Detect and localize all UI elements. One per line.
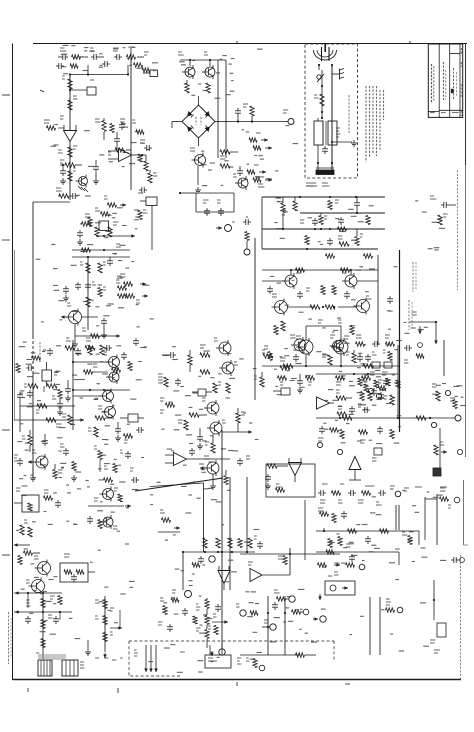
amp left vertical xyxy=(261,197,263,249)
connector J8 xyxy=(185,591,192,598)
rotated label left xyxy=(39,342,41,362)
box circuit bottom-left xyxy=(14,488,39,512)
long mid rail y418 xyxy=(316,417,452,419)
small box FB1 xyxy=(140,197,157,250)
resistor R7 xyxy=(115,148,131,152)
resistor R56 xyxy=(254,372,264,387)
transistor Q17 xyxy=(73,389,114,404)
resistor string col (207,600-640) xyxy=(196,598,228,656)
wire top mid rails xyxy=(180,59,226,158)
cluster under amp xyxy=(262,350,392,362)
vertical wire x255 lower xyxy=(254,345,256,400)
capacitor C3 xyxy=(114,132,120,150)
below rail cluster 2 xyxy=(359,426,395,443)
right margin note text lower xyxy=(460,555,462,680)
transistor Q25 xyxy=(330,335,344,354)
cluster bottom-left of center xyxy=(158,598,173,632)
labels topmid transistors xyxy=(179,59,235,99)
resistor R69 col xyxy=(20,520,32,537)
transistor Q11 output xyxy=(296,336,313,356)
resistor R20 xyxy=(95,227,112,237)
resistor R8 xyxy=(44,120,56,130)
border frame right rule xyxy=(464,44,469,546)
capacitor C20 xyxy=(115,422,121,441)
resistor R72 xyxy=(50,596,62,605)
long wire (sloped) xyxy=(135,477,247,552)
wire right rails xyxy=(316,373,398,375)
connector J7 xyxy=(431,422,436,427)
resistor R64 col xyxy=(358,392,384,408)
long vertical x232 xyxy=(229,497,231,590)
labels bottom center xyxy=(165,513,305,632)
resistor R80 xyxy=(296,653,317,657)
resistor R22 xyxy=(72,248,130,258)
wire x183 down xyxy=(182,552,184,590)
extra right grid parts xyxy=(349,378,400,414)
labels speaker area xyxy=(148,645,219,673)
connector J6 xyxy=(317,442,342,454)
extra labels amp right xyxy=(404,322,428,333)
labels center chain xyxy=(157,351,253,482)
output enclosure (dashed) xyxy=(129,641,334,676)
cluster center misc xyxy=(160,398,175,413)
long vertical x222 upper xyxy=(221,430,223,492)
capacitor C27 xyxy=(87,516,108,529)
resistor R26 xyxy=(116,280,127,298)
labels right block xyxy=(322,341,401,416)
resistor R28 xyxy=(138,210,148,220)
label amp rotated 2 xyxy=(409,300,412,330)
amp rail mid2 xyxy=(262,228,385,230)
amp misc parts xyxy=(297,288,350,323)
transistor Q4 xyxy=(233,174,248,190)
connector J9 xyxy=(209,556,215,562)
fuse F1 xyxy=(314,94,324,106)
capacitor C13 xyxy=(82,317,108,332)
resistor R9 xyxy=(141,154,148,171)
small boxes right xyxy=(370,362,392,375)
resistor R17 xyxy=(249,138,261,150)
resistor R40 xyxy=(53,464,63,479)
wire top right hook xyxy=(323,528,325,532)
cluster 100-140 425-445 xyxy=(124,427,145,443)
more topmid marks xyxy=(192,49,262,90)
resistor R51 xyxy=(178,420,188,430)
connector J4 xyxy=(368,388,381,398)
cluster near U3 xyxy=(276,484,306,560)
resistor R74 row (4x vertical) xyxy=(203,538,252,548)
vertical pair x396-399 xyxy=(396,505,399,530)
resistor R70 xyxy=(18,551,40,565)
extra amp stage parts xyxy=(267,268,393,335)
chain y565 xyxy=(318,563,365,575)
capacitor C2 / resistor R3 xyxy=(113,48,144,60)
transistor Q12 output xyxy=(331,336,349,356)
ground G5 xyxy=(210,474,216,489)
labels below rail xyxy=(323,420,401,443)
amp out emitter wires xyxy=(306,326,341,366)
labels midleft chain xyxy=(70,346,146,445)
resistor R2 group xyxy=(90,48,104,60)
transistor Q27 xyxy=(100,515,117,529)
resistor R18 xyxy=(247,170,261,182)
labels top-left rows xyxy=(61,47,141,68)
capacitor C26 xyxy=(365,352,377,362)
more preamp col marks xyxy=(71,195,154,319)
power switch S1 xyxy=(317,74,324,87)
cluster (60-90,445-490) xyxy=(60,444,90,489)
right lower cluster xyxy=(425,488,464,563)
capacitor C25 xyxy=(265,474,271,489)
right cluster x430-460 xyxy=(432,384,457,409)
wire bridge connections xyxy=(172,96,230,146)
capacitor C17 xyxy=(57,398,63,415)
transistor Q2 xyxy=(202,52,215,79)
wire w/ arrow xyxy=(88,498,131,508)
resistor R11 xyxy=(148,170,158,183)
small box FB0 xyxy=(69,80,96,95)
small box FB3 xyxy=(192,389,212,396)
labels bottom-left box xyxy=(16,493,129,531)
box near U5 xyxy=(372,448,382,461)
vertical x434 lower xyxy=(433,580,435,620)
extra tiny marks top xyxy=(242,126,299,180)
cluster (90-150,440-490) xyxy=(94,446,144,490)
wire transformer secondary xyxy=(317,152,333,164)
wire to winding xyxy=(318,163,332,170)
border frame top rule xyxy=(33,41,467,44)
op-amp U3 xyxy=(266,458,315,497)
labels lowleft strings xyxy=(21,544,135,639)
box FB2 xyxy=(120,414,144,422)
amp emitter resistors xyxy=(281,286,336,332)
caption under supply xyxy=(306,185,317,187)
capacitor C8 xyxy=(237,166,243,176)
amp rail mid1 xyxy=(300,212,385,214)
small box xyxy=(273,388,290,395)
amp rail +V xyxy=(262,196,385,198)
resistor R33 xyxy=(355,229,363,246)
wire y252 xyxy=(75,282,96,290)
capacitor C6 xyxy=(138,187,147,193)
box with arrow circuit xyxy=(325,576,355,595)
ground G6 xyxy=(85,640,91,655)
transistor Q21 xyxy=(202,398,219,416)
transistor Q3 xyxy=(190,148,206,168)
extra bottom right verticals xyxy=(399,531,419,565)
resistor R46 xyxy=(200,345,210,374)
transistor Q1 xyxy=(178,52,195,79)
labels center-right xyxy=(253,349,311,395)
resistor R76 xyxy=(208,626,218,635)
resistor R15 xyxy=(220,150,238,154)
capacitor C4 xyxy=(93,160,99,178)
border tick marks xyxy=(2,95,350,693)
op-amp U2 xyxy=(108,149,142,162)
resistor R42 xyxy=(84,345,109,374)
label near speaker xyxy=(180,651,185,653)
op-amp U4 xyxy=(316,397,334,409)
resistor R30 xyxy=(281,197,285,229)
below rail cluster 1 xyxy=(318,426,344,441)
transistor Q9 xyxy=(272,294,288,316)
op-amp U5 xyxy=(349,457,361,481)
wire mid rail xyxy=(72,389,130,391)
extra tiny marks trc xyxy=(415,201,445,250)
winding box L1 xyxy=(36,653,52,676)
border tick left2 xyxy=(40,90,44,92)
resistor R24 xyxy=(98,262,106,273)
labels under bridge xyxy=(201,151,265,185)
more bottom center parts xyxy=(162,565,212,633)
left border doubling xyxy=(14,250,16,420)
gray halftone bar xyxy=(38,654,66,660)
resistor R68 xyxy=(118,494,122,502)
amp box left xyxy=(254,238,256,345)
labels preamp col xyxy=(83,196,140,327)
power supply enclosure (dashed) xyxy=(305,44,358,178)
resistor R41 row xyxy=(65,338,112,351)
transistor Q28 xyxy=(34,556,51,577)
transistor Q26 xyxy=(100,487,119,502)
connector J5 xyxy=(452,415,463,455)
transistor Q23 xyxy=(200,456,219,476)
cluster top-left small parts xyxy=(58,119,145,153)
winding bar xyxy=(316,168,334,175)
rail to connector J1 xyxy=(230,120,287,122)
ground G3 xyxy=(72,332,107,347)
transistor Q20 xyxy=(219,360,238,376)
resistor R31 xyxy=(293,197,297,211)
right side down-arrow group xyxy=(409,312,438,344)
capacitor C7 xyxy=(235,108,241,122)
resistor R35 xyxy=(283,364,373,368)
labels row bottom xyxy=(95,658,123,660)
vertical x398 xyxy=(397,345,399,418)
wire y233 arrow xyxy=(96,234,135,238)
cluster speaker right xyxy=(246,658,265,671)
transistor Q10 xyxy=(354,296,372,315)
border frame bottom rule xyxy=(13,679,462,681)
cluster left of verticals xyxy=(158,510,180,532)
transistor Q22 xyxy=(207,420,226,436)
resistor R57 xyxy=(267,464,288,468)
right grid extra parts xyxy=(357,377,392,405)
transformer label xyxy=(336,128,340,137)
vertical x440 lower xyxy=(439,428,441,470)
resistor R23 xyxy=(80,257,90,330)
long vertical bus x33 xyxy=(33,202,70,476)
cluster x437 y648 xyxy=(434,650,440,653)
capacitor C23 xyxy=(237,456,250,466)
more bottom right parts xyxy=(326,512,419,579)
resistor R67 xyxy=(44,490,62,508)
resistor R75 xyxy=(278,556,287,565)
amp lower parts row xyxy=(278,376,371,385)
resistor R66 xyxy=(434,442,447,455)
more center col marks xyxy=(158,347,258,491)
speaker SP1 xyxy=(205,645,231,668)
capacitor C5 xyxy=(60,164,66,184)
parts above right block xyxy=(404,343,424,363)
resistor R61 xyxy=(336,390,352,400)
long vertical x222 xyxy=(221,492,223,648)
vertical x370 x380 xyxy=(370,597,380,655)
cluster right of preamp xyxy=(120,274,148,303)
cluster mid parts xyxy=(85,214,121,247)
vertical x437 xyxy=(436,494,438,545)
resistor R39 xyxy=(22,430,32,452)
labels amp below xyxy=(274,369,397,383)
connector J10 xyxy=(277,596,296,602)
resistor R37 xyxy=(17,384,57,432)
resistor R45 xyxy=(88,427,98,437)
long vertical bus x131 xyxy=(130,53,132,190)
speaker terminals 1 xyxy=(134,645,158,672)
wire y554 long xyxy=(240,553,340,555)
transistor Q29 xyxy=(26,578,45,595)
capacitor C10 xyxy=(77,230,83,245)
connector J13 xyxy=(219,643,225,655)
connector J1 xyxy=(283,110,294,125)
resistor R32 xyxy=(338,236,349,246)
resistor R43 xyxy=(62,414,72,425)
transistor Q19 xyxy=(214,338,231,356)
misc dots xyxy=(182,551,269,614)
connector J12 xyxy=(262,620,276,630)
capacitor C22 xyxy=(197,428,203,449)
resistor R77 cluster xyxy=(318,508,347,523)
connector J3 xyxy=(244,241,250,255)
resistor R54 xyxy=(224,470,228,485)
more left col marks xyxy=(19,347,63,486)
amp base network xyxy=(262,269,378,308)
resistor R55 xyxy=(263,346,290,370)
vertical x290 xyxy=(289,548,291,575)
transistor Q6 xyxy=(61,303,82,326)
resistor R1a inline xyxy=(68,79,72,181)
connector row right xyxy=(430,196,456,208)
secondary ground xyxy=(331,140,357,146)
right margin note text xyxy=(457,170,459,290)
resistor R14 xyxy=(243,104,254,122)
wire y531 xyxy=(316,530,419,532)
wire y655 right xyxy=(240,654,300,656)
labels row xyxy=(320,500,382,505)
resistor R44 xyxy=(95,416,112,420)
border frame left rule xyxy=(12,44,14,681)
more topleft row marks xyxy=(63,45,158,73)
amp rail extra parts xyxy=(300,196,347,231)
resistor R48 xyxy=(158,374,181,387)
capacitor C24 xyxy=(297,374,303,393)
extra marks near x33 bus xyxy=(36,244,65,322)
labels relay area xyxy=(51,124,151,167)
chain side marks xyxy=(60,76,78,171)
resistor R13 xyxy=(206,83,210,93)
resistor R49 xyxy=(213,382,230,393)
cluster near J10 xyxy=(272,590,280,610)
resistor R73 col3 xyxy=(95,596,122,658)
NFB loop box xyxy=(60,554,95,582)
resistor R38 xyxy=(14,404,84,427)
capacitor C11 xyxy=(107,257,113,266)
resistor R16 xyxy=(220,156,230,168)
transistor Q7 driver xyxy=(282,270,302,289)
resistor R58 grid xyxy=(356,335,395,347)
wire top-left bus xyxy=(69,65,129,76)
verticals bottom center-right xyxy=(267,596,286,655)
resistor R27 xyxy=(75,324,120,338)
capacitor C9 xyxy=(70,193,78,199)
caption under power box xyxy=(306,183,330,186)
capacitor C100 xyxy=(322,146,328,154)
cluster left bottom misc xyxy=(14,455,23,466)
resistor R19 xyxy=(56,188,69,198)
extra tiny marks bot xyxy=(349,599,429,651)
resistor R25 xyxy=(98,287,106,297)
wire y552 xyxy=(183,551,255,553)
bridge rectifier D2-D5 xyxy=(182,105,215,138)
resistor R59 xyxy=(346,350,356,363)
ground G2 xyxy=(195,166,201,193)
label amp rotated xyxy=(413,262,416,292)
capacitor C15 xyxy=(243,216,251,225)
transistor Q8 driver xyxy=(342,270,357,289)
resistor R52 xyxy=(236,408,245,432)
test point arrows xyxy=(254,133,272,187)
resistor R4 / diode D1 xyxy=(131,48,158,77)
extra marks y490 row xyxy=(150,495,221,505)
resistor R1 / capacitor C1 pair xyxy=(58,48,88,60)
amp heavy right bus xyxy=(399,250,401,432)
capacitor C19 xyxy=(65,380,71,401)
wire y588 xyxy=(14,591,72,614)
main chain vertical x70 xyxy=(69,75,71,201)
left margin title text xyxy=(9,612,12,664)
title block xyxy=(428,44,462,117)
capacitor C21 xyxy=(162,352,176,358)
extra bottom-center parts xyxy=(192,536,263,567)
resistor R5 xyxy=(104,196,126,207)
resistor R37b xyxy=(52,390,62,400)
resistor R34 xyxy=(319,213,328,225)
connector J11 xyxy=(236,604,258,616)
extra amp hanging parts xyxy=(305,216,373,259)
AC plug P1 xyxy=(314,44,337,66)
transistor Q18 xyxy=(98,405,116,420)
labels bottom right low xyxy=(247,597,326,660)
transistor Q5 xyxy=(88,208,110,231)
labels left lower col xyxy=(17,342,65,479)
chassis ground xyxy=(332,69,344,80)
resistor R71 col2 xyxy=(25,593,59,660)
op-amp U8 xyxy=(165,448,230,466)
arrow left edge xyxy=(14,543,30,547)
transformer T1 xyxy=(314,118,337,152)
resistor R65 xyxy=(384,395,394,405)
parts right of relay xyxy=(108,120,152,162)
relay K2 coil xyxy=(42,362,58,387)
op-amp U7 xyxy=(248,562,290,582)
resistor R78 xyxy=(328,537,342,548)
transistor Q16 xyxy=(72,340,120,430)
extra caps midleft xyxy=(75,338,139,372)
capacitor C16 xyxy=(354,197,360,213)
arrow down-left xyxy=(318,594,322,600)
ground G4 xyxy=(30,468,36,481)
resistor R10 xyxy=(60,163,82,167)
